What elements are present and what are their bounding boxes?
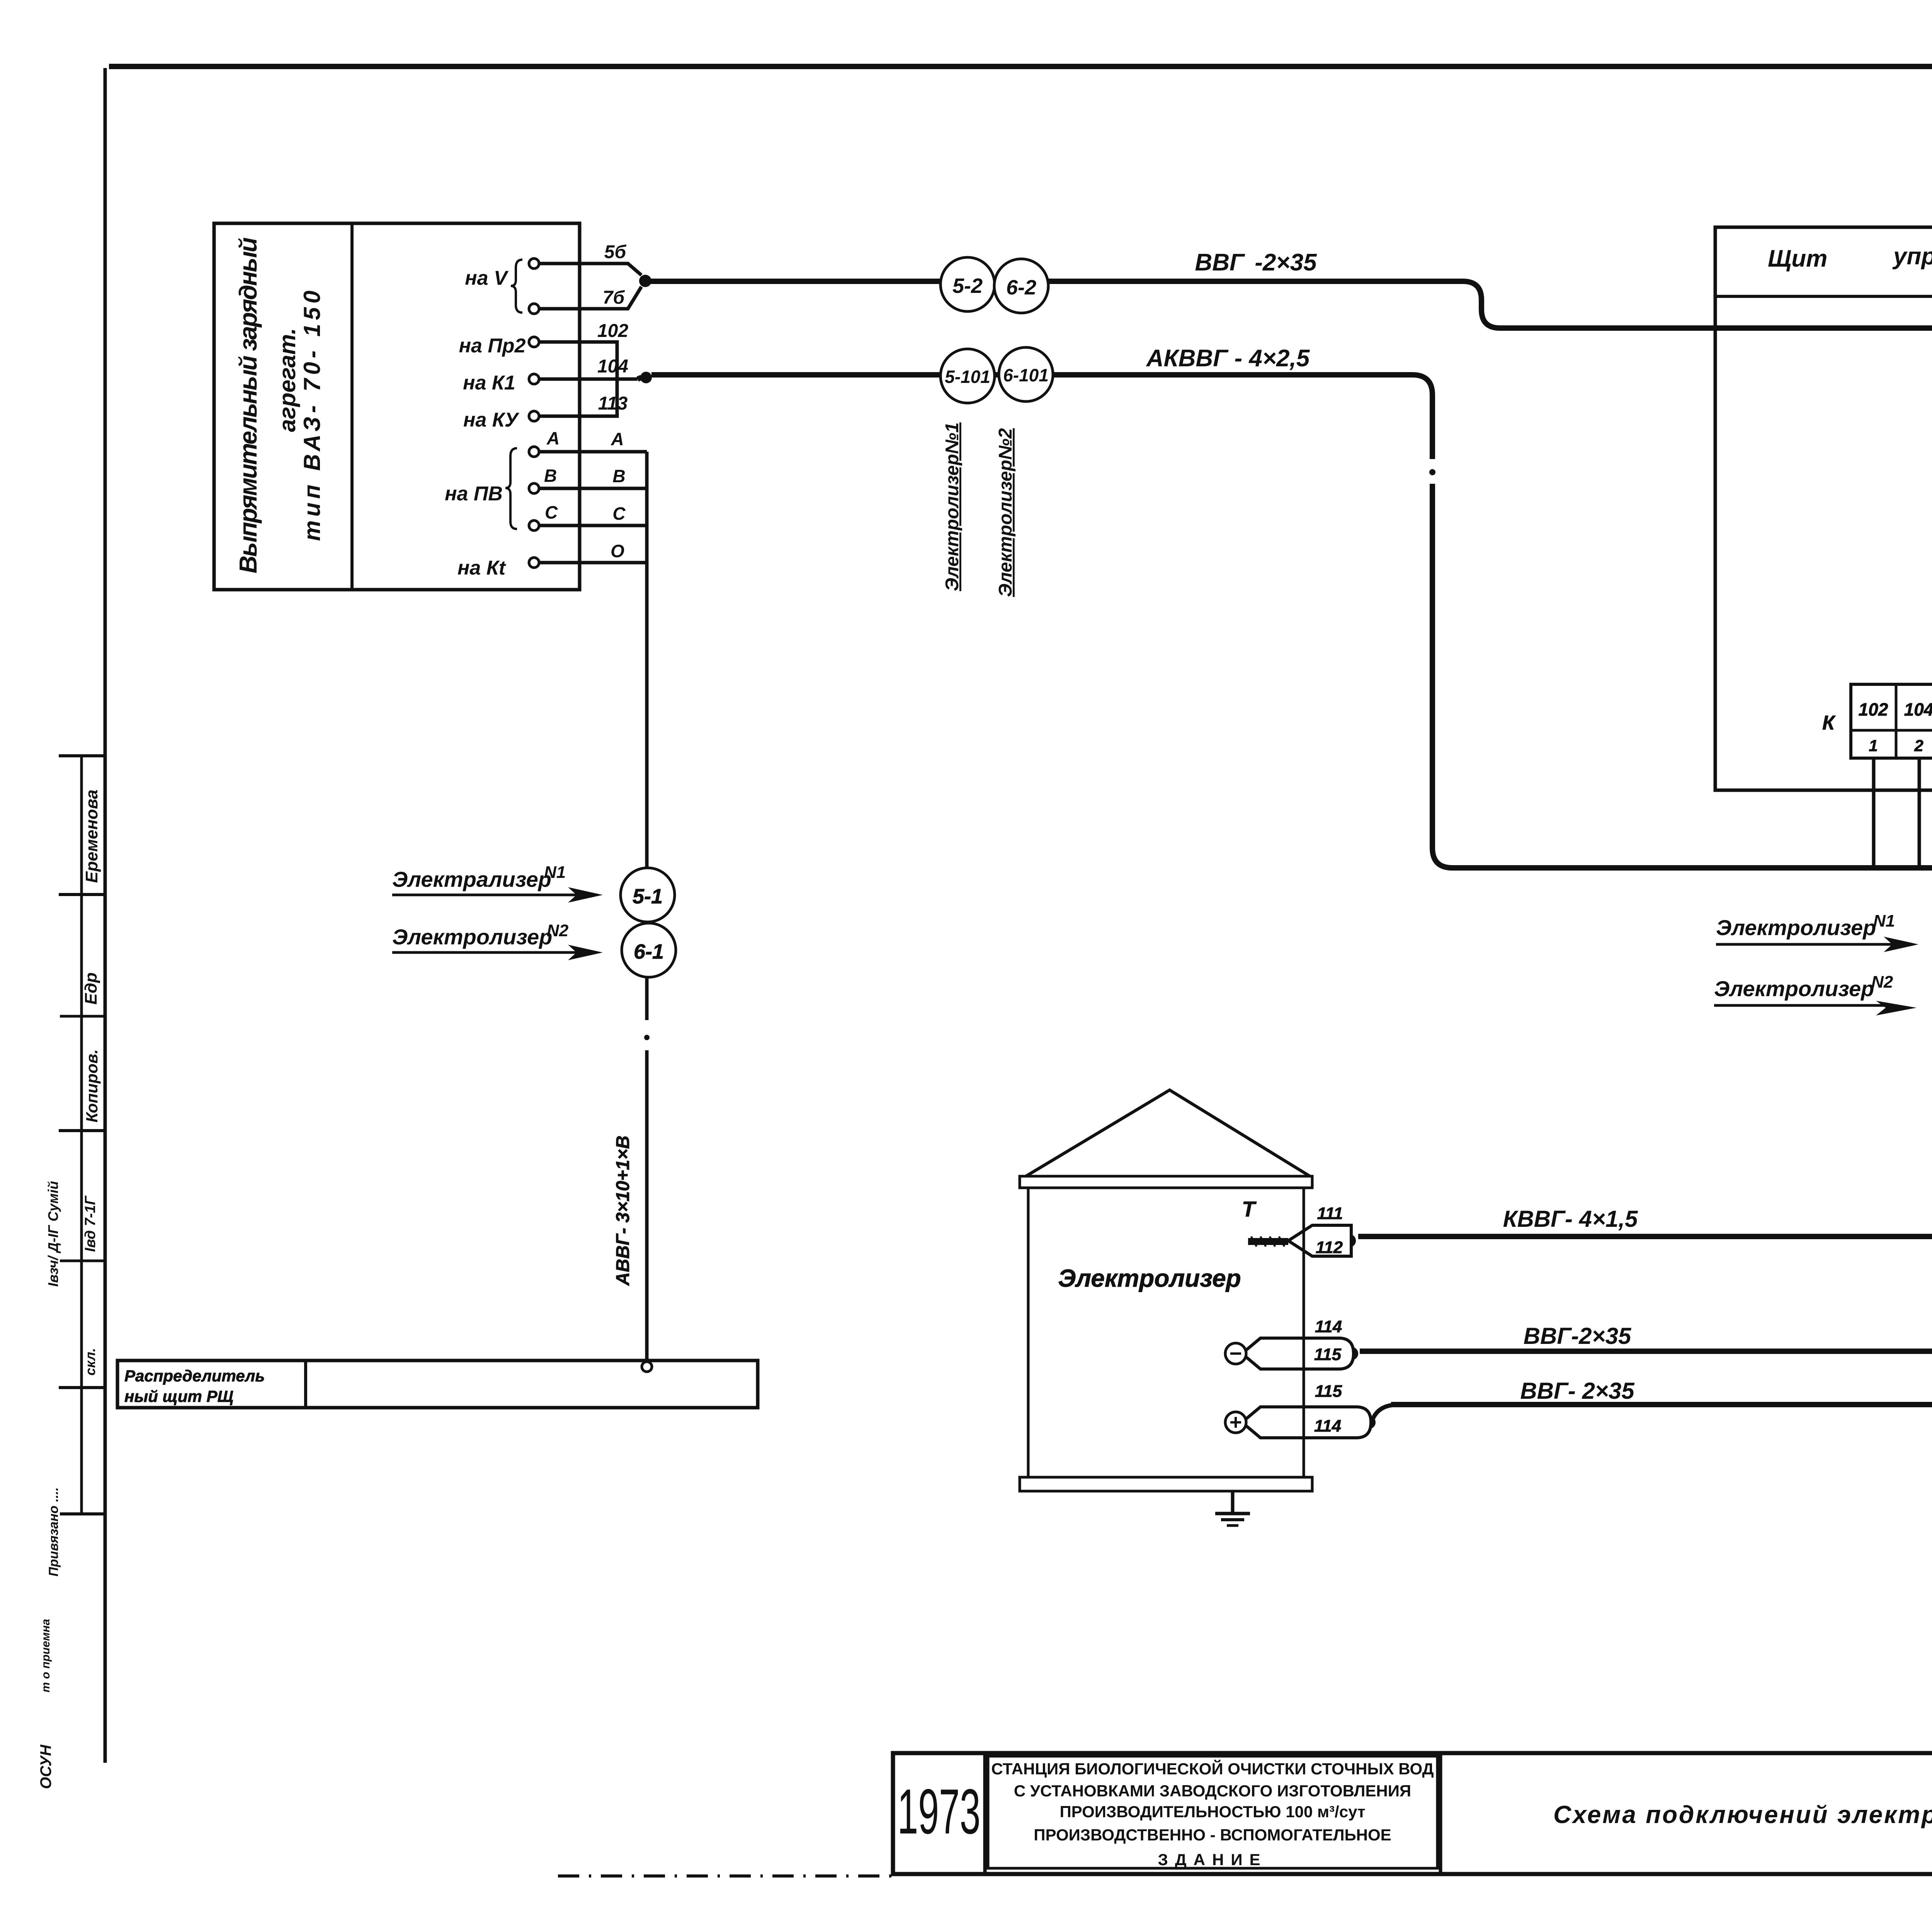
svg-text:Копиров.: Копиров. (83, 1049, 101, 1122)
svg-text:К: К (1822, 712, 1836, 734)
svg-text:О: О (611, 541, 624, 561)
svg-text:N1: N1 (544, 863, 566, 882)
svg-text:115: 115 (1314, 1345, 1342, 1364)
svg-text:Еременова: Еременова (82, 789, 101, 883)
svg-text:агрегат.: агрегат. (274, 328, 300, 432)
svg-text:Iвзч/ Д-IГ Сумiй: Iвзч/ Д-IГ Сумiй (45, 1181, 61, 1287)
svg-text:N2: N2 (1871, 973, 1893, 992)
svg-text:Электролизер: Электролизер (392, 925, 552, 949)
svg-text:Iвд 7-1Г: Iвд 7-1Г (82, 1195, 99, 1252)
svg-text:ОСУН: ОСУН (37, 1744, 54, 1789)
svg-text:ПРОИЗВОДИТЕЛЬНОСТЬЮ 100 м³/сут: ПРОИЗВОДИТЕЛЬНОСТЬЮ 100 м³/сут (1060, 1803, 1365, 1821)
svg-text:5-2: 5-2 (952, 274, 983, 298)
svg-text:на КУ: на КУ (463, 409, 520, 431)
svg-text:АВВГ- 3×10+1×В: АВВГ- 3×10+1×В (613, 1136, 633, 1286)
svg-text:102: 102 (1859, 699, 1888, 719)
svg-text:Электролизер№2: Электролизер№2 (995, 428, 1016, 597)
svg-text:Электролизер№1: Электролизер№1 (942, 422, 963, 591)
svg-text:т о приемна: т о приемна (39, 1619, 52, 1692)
svg-text:115: 115 (1315, 1382, 1342, 1401)
svg-text:1: 1 (1869, 736, 1878, 755)
svg-text:Едр: Едр (82, 973, 100, 1005)
svg-text:104: 104 (1904, 699, 1932, 719)
svg-text:В: В (612, 466, 625, 486)
svg-text:на ПВ: на ПВ (445, 483, 503, 505)
svg-text:С УСТАНОВКАМИ ЗАВОДСКОГО ИЗГ: С УСТАНОВКАМИ ЗАВОДСКОГО ИЗГОТОВЛЕНИЯ (1014, 1782, 1411, 1800)
svg-text:А: А (611, 429, 624, 449)
svg-text:6-2: 6-2 (1006, 276, 1036, 299)
svg-text:ВВГ- 2×35: ВВГ- 2×35 (1520, 1378, 1635, 1404)
svg-text:104: 104 (597, 356, 628, 377)
svg-text:на Кt: на Кt (457, 557, 507, 579)
svg-text:Схема подключений электро: Схема подключений электролизера. (1553, 1801, 1932, 1828)
svg-text:Привязано ....: Привязано .... (46, 1487, 61, 1577)
svg-text:112: 112 (1316, 1238, 1343, 1257)
svg-text:СТАНЦИЯ БИОЛОГИЧЕСКОЙ ОЧИСТКИ: СТАНЦИЯ БИОЛОГИЧЕСКОЙ ОЧИСТКИ СТОЧНЫХ ВО… (991, 1759, 1434, 1778)
svg-text:Электролизер: Электролизер (1058, 1264, 1241, 1292)
svg-text:на К1: на К1 (463, 372, 515, 394)
svg-text:С: С (612, 503, 626, 524)
svg-text:111: 111 (1317, 1204, 1343, 1223)
svg-text:Т: Т (1242, 1197, 1257, 1221)
svg-text:скл.: скл. (82, 1348, 98, 1376)
svg-text:6-1: 6-1 (634, 940, 664, 963)
svg-text:102: 102 (597, 321, 628, 341)
svg-text:5-101: 5-101 (945, 367, 990, 387)
svg-text:АКВВГ - 4×2,5: АКВВГ - 4×2,5 (1146, 345, 1310, 372)
svg-text:управления: управления (1892, 243, 1932, 270)
svg-text:ный щит РЩ: ный щит РЩ (124, 1387, 233, 1405)
svg-text:5-1: 5-1 (633, 885, 663, 908)
svg-text:С: С (545, 502, 558, 522)
svg-text:Щит: Щит (1768, 245, 1827, 272)
svg-text:2: 2 (1914, 736, 1923, 755)
svg-text:Электролизер: Электролизер (1716, 915, 1876, 940)
svg-text:тип ВАЗ- 70- 150: тип ВАЗ- 70- 150 (299, 291, 325, 541)
svg-text:114: 114 (1315, 1317, 1342, 1336)
svg-text:Электролизер: Электролизер (1714, 976, 1874, 1001)
svg-text:КВВГ- 4×1,5: КВВГ- 4×1,5 (1503, 1206, 1638, 1232)
svg-text:114: 114 (1314, 1417, 1341, 1435)
svg-text:Выпрямительный зарядный: Выпрямительный зарядный (234, 237, 262, 573)
svg-text:Электрализер: Электрализер (392, 867, 551, 891)
svg-text:на Пр2: на Пр2 (459, 335, 526, 357)
svg-text:N1: N1 (1873, 912, 1895, 930)
svg-text:113: 113 (598, 393, 628, 414)
svg-text:ЗДАНИЕ: ЗДАНИЕ (1158, 1850, 1267, 1869)
svg-text:ПРОИЗВОДСТВЕННО - ВСПОМОГАТЕЛЬ: ПРОИЗВОДСТВЕННО - ВСПОМОГАТЕЛЬНОЕ (1034, 1826, 1391, 1844)
svg-text:ВВГ -2×35: ВВГ -2×35 (1195, 249, 1317, 276)
svg-text:Распределитель: Распределитель (124, 1367, 265, 1385)
svg-text:N2: N2 (547, 921, 569, 940)
svg-text:6-101: 6-101 (1003, 365, 1049, 385)
svg-text:1973: 1973 (898, 1776, 981, 1847)
svg-text:на V: на V (465, 267, 509, 289)
svg-text:ВВГ-2×35: ВВГ-2×35 (1524, 1323, 1632, 1349)
svg-text:7б: 7б (603, 287, 625, 308)
svg-text:А: А (546, 428, 560, 448)
svg-text:5б: 5б (604, 242, 627, 262)
svg-text:В: В (544, 466, 557, 486)
